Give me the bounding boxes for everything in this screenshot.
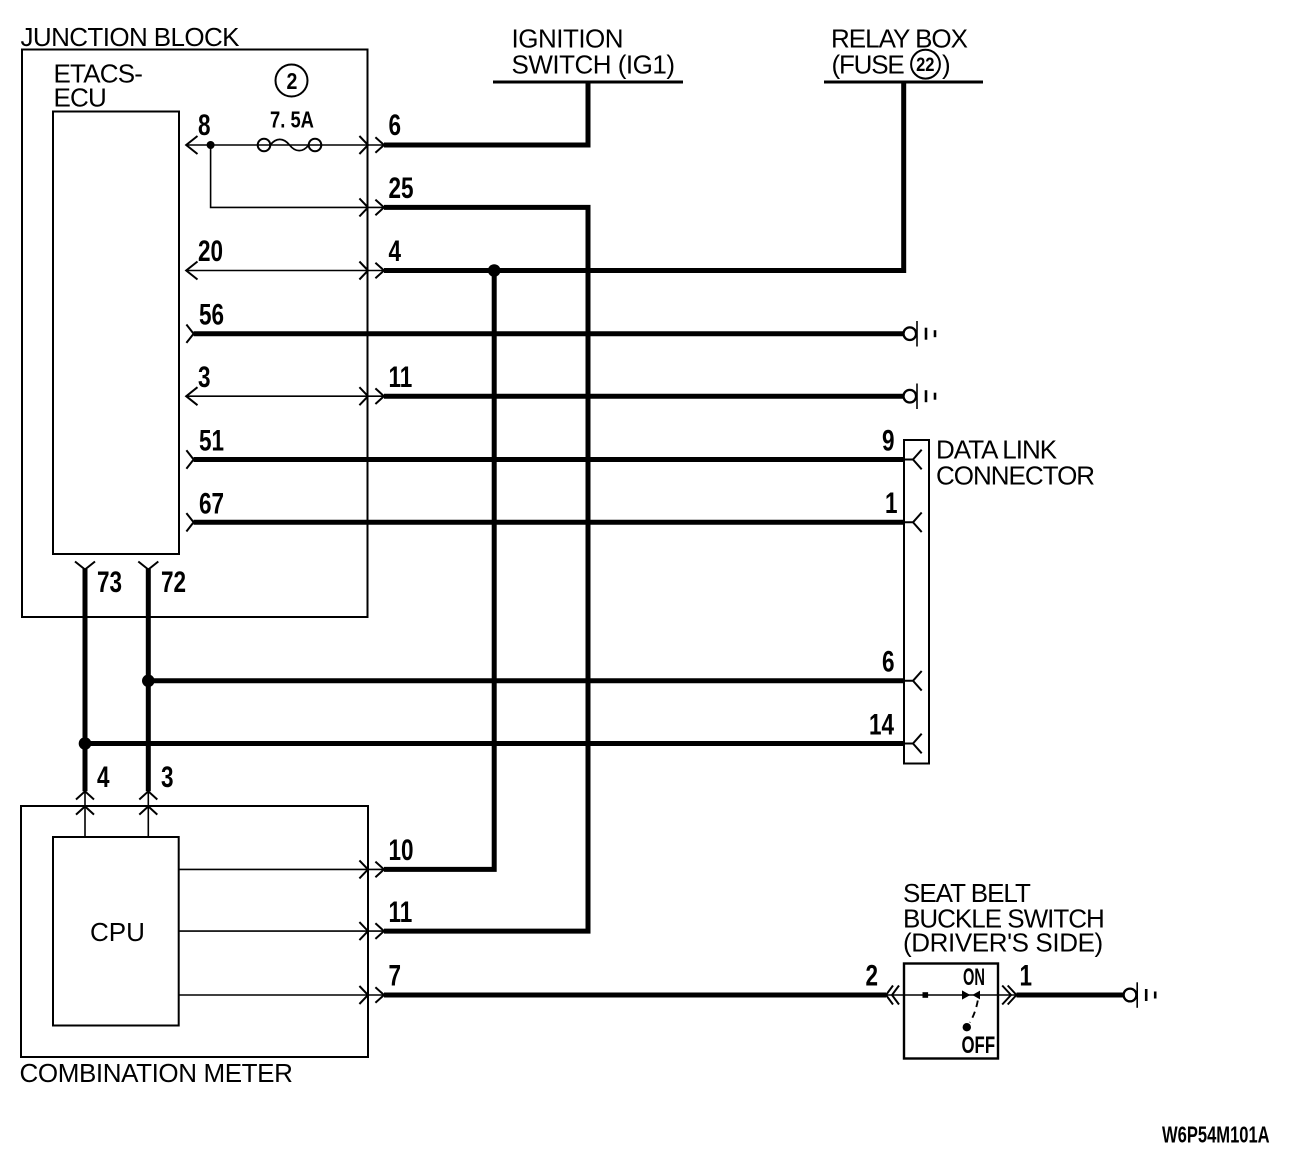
svg-text:(DRIVER'S SIDE): (DRIVER'S SIDE) xyxy=(903,928,1103,958)
meter pin 3 chevrons xyxy=(139,791,157,814)
svg-text:JUNCTION BLOCK: JUNCTION BLOCK xyxy=(21,22,241,52)
switch fixed contact square xyxy=(923,992,929,998)
wire: pin 56 bold to ground symbol xyxy=(194,331,904,336)
wire: pin 3 to pin 11 (thin) xyxy=(186,395,384,397)
svg-text:67: 67 xyxy=(199,486,224,520)
svg-text:CPU: CPU xyxy=(90,917,145,947)
node: junction dot pin4 / meter 10 xyxy=(488,264,501,277)
node: dot pin73 to data link 14 xyxy=(79,737,92,750)
wire: pin 8 branch down to pin 25 (thin) xyxy=(211,145,384,207)
svg-text:9: 9 xyxy=(882,423,895,457)
wire: meter pin 3 stub (thin) xyxy=(147,791,149,837)
arrow at pin 3 xyxy=(186,387,197,405)
svg-text:4: 4 xyxy=(97,760,110,794)
svg-text:14: 14 xyxy=(869,707,894,741)
ETACS-ECU box xyxy=(53,112,179,555)
arrow at pin 20 xyxy=(186,262,197,280)
meter pin 4 chevrons xyxy=(76,791,94,814)
node: dot on pin-8 wire xyxy=(207,141,215,149)
svg-text:COMBINATION METER: COMBINATION METER xyxy=(20,1058,293,1088)
svg-text:6: 6 xyxy=(882,644,895,678)
wire: CPU to meter pin 7 (thin) xyxy=(179,994,384,996)
node: dot pin72 to data link 6 xyxy=(142,675,155,688)
Y terminal pin 73 xyxy=(75,562,95,570)
wire: ignition IG1 down to pin 6 (bold) xyxy=(384,82,588,145)
data link pin 14 terminal xyxy=(905,734,922,754)
wire: to data link pin 14 (bold) xyxy=(85,741,904,746)
meter border chevrons row 10 xyxy=(359,860,384,878)
svg-text:SWITCH (IG1): SWITCH (IG1) xyxy=(512,50,675,80)
wire: CPU to meter pin 10 (thin) xyxy=(179,868,384,870)
wire: pin 25 bold to vertical xyxy=(384,207,588,931)
svg-text:8: 8 xyxy=(198,108,211,142)
svg-text:ECU: ECU xyxy=(54,83,107,113)
wire: meter pin 7 bold to seat belt switch xyxy=(384,993,886,998)
data link pin 9 terminal xyxy=(905,450,922,470)
wire: vertical down to meter pin 10 (bold) xyxy=(384,271,494,870)
ground connector symbol row 56 xyxy=(904,321,936,347)
relay box bar xyxy=(824,81,983,84)
Y terminal pin 72 xyxy=(138,562,158,570)
wire: ETACS pin 72 vertical (bold) xyxy=(146,569,151,791)
svg-text:ON: ON xyxy=(963,964,985,991)
junction block box xyxy=(22,50,368,618)
svg-text:3: 3 xyxy=(161,760,174,794)
wire: ETACS pin 73 vertical (bold) xyxy=(83,569,88,791)
svg-text:10: 10 xyxy=(389,833,414,867)
wire: pin 51 bold to data link pin 9 xyxy=(194,457,904,462)
svg-text:2: 2 xyxy=(287,68,298,94)
svg-text:OFF: OFF xyxy=(962,1032,996,1059)
data link pin 6 terminal xyxy=(905,671,922,691)
fuse 22 circled xyxy=(911,50,940,79)
seat belt switch chevrons right xyxy=(1002,986,1016,1005)
svg-text:11: 11 xyxy=(389,895,413,929)
arrow at pin 51 xyxy=(186,450,193,468)
switch ON contact triangle xyxy=(962,990,970,999)
wire: through switch (thin) xyxy=(886,994,1017,996)
wire: switch pin 1 bold to ground xyxy=(1017,993,1124,998)
switch OFF contact dot xyxy=(963,1023,971,1031)
wire: pin 20 to pin 4 (thin) xyxy=(186,270,384,272)
wire: pin 11 bold to ground xyxy=(384,394,904,399)
svg-text:7: 7 xyxy=(389,958,402,992)
svg-text:22: 22 xyxy=(916,54,934,75)
combination meter box xyxy=(21,806,368,1057)
arrow at pin 8 xyxy=(186,136,197,154)
CPU box (combination meter) xyxy=(53,837,179,1026)
wire: to data link pin 6 (bold) xyxy=(148,678,904,683)
arrow at pin 56 xyxy=(186,325,193,343)
svg-text:6: 6 xyxy=(389,108,402,142)
svg-text:3: 3 xyxy=(198,360,211,394)
wire: pin 4 bold to relay box xyxy=(384,82,904,271)
svg-text:CONNECTOR: CONNECTOR xyxy=(936,461,1094,491)
switch dashed throw to OFF xyxy=(970,1001,978,1023)
ignition switch bar xyxy=(493,81,683,84)
svg-text:(FUSE: (FUSE xyxy=(832,50,905,80)
wire: CPU to meter pin 11 (thin) xyxy=(179,930,384,932)
junction block border chevrons row 25 xyxy=(359,198,384,216)
wire: pin 8 to fuse (thin) xyxy=(186,144,384,146)
svg-text:56: 56 xyxy=(199,297,224,331)
data link connector box xyxy=(904,440,929,764)
seat belt switch chevrons left xyxy=(886,986,899,1005)
svg-text:): ) xyxy=(942,50,951,80)
meter border chevrons row 11 xyxy=(359,922,384,940)
ground connector symbol seat belt xyxy=(1124,982,1156,1008)
svg-text:7. 5A: 7. 5A xyxy=(270,108,314,133)
data link pin 1 terminal xyxy=(905,513,922,533)
svg-text:4: 4 xyxy=(389,234,402,268)
svg-text:11: 11 xyxy=(389,360,413,394)
wire: pin 67 bold to data link pin 1 xyxy=(194,520,904,525)
svg-text:1: 1 xyxy=(885,486,898,520)
svg-text:2: 2 xyxy=(866,958,879,992)
seat belt switch box xyxy=(904,964,998,1059)
svg-text:72: 72 xyxy=(161,565,186,599)
svg-text:W6P54M101A: W6P54M101A xyxy=(1162,1123,1270,1148)
svg-text:25: 25 xyxy=(389,171,414,205)
switch ON contact triangle right xyxy=(972,991,980,1000)
junction block border chevrons row 11 xyxy=(359,387,384,405)
svg-text:73: 73 xyxy=(97,565,122,599)
circled 2 fuse number xyxy=(276,65,308,97)
ground connector symbol row 11 xyxy=(904,384,936,410)
wire: meter pin 4 stub (thin) xyxy=(84,791,86,837)
svg-text:1: 1 xyxy=(1020,958,1033,992)
fuse symbol (2) 7.5A xyxy=(258,139,271,152)
svg-text:51: 51 xyxy=(199,423,224,457)
svg-text:20: 20 xyxy=(198,234,223,268)
junction block border chevrons row 6 xyxy=(359,136,384,154)
meter border chevrons row 7 xyxy=(359,986,384,1004)
arrow at pin 67 xyxy=(186,513,193,531)
junction block border chevrons row 4 xyxy=(359,262,384,280)
